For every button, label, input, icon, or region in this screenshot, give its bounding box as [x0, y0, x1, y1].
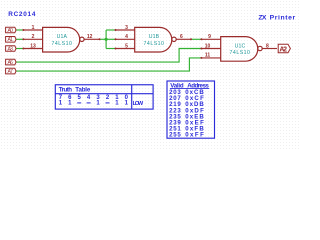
svg-text:U1C: U1C [235, 44, 246, 50]
svg-text:12: 12 [87, 34, 93, 40]
svg-text:RC2014: RC2014 [8, 11, 36, 18]
svg-text:A7: A7 [8, 69, 14, 75]
svg-text:10: 10 [205, 43, 211, 49]
svg-text:74LS10: 74LS10 [144, 41, 165, 47]
svg-text:6: 6 [180, 34, 183, 40]
svg-text:A2: A2 [279, 46, 287, 53]
svg-text:0xFF: 0xFF [185, 132, 204, 139]
svg-text:74LS10: 74LS10 [51, 41, 72, 47]
svg-text:2: 2 [32, 34, 35, 40]
svg-text:255: 255 [169, 132, 181, 139]
svg-text:LOW: LOW [133, 101, 144, 107]
svg-text:1: 1 [32, 25, 35, 31]
svg-text:A0: A0 [8, 28, 14, 34]
svg-text:U1B: U1B [149, 34, 160, 40]
svg-text:3: 3 [125, 25, 128, 31]
svg-text:A1: A1 [8, 37, 14, 43]
svg-text:9: 9 [208, 34, 211, 40]
svg-text:74LS10: 74LS10 [230, 50, 251, 56]
svg-text:A6: A6 [8, 60, 14, 66]
svg-text:Truth: Truth [59, 86, 73, 93]
svg-text:ZX: ZX [258, 14, 266, 21]
svg-text:5: 5 [125, 43, 128, 49]
svg-text:8: 8 [266, 43, 269, 49]
svg-text:11: 11 [205, 53, 211, 59]
svg-text:4: 4 [125, 34, 128, 40]
svg-text:13: 13 [30, 43, 36, 49]
svg-text:Printer: Printer [270, 14, 296, 21]
svg-text:Table: Table [75, 86, 91, 93]
svg-text:A3: A3 [8, 46, 14, 52]
svg-text:U1A: U1A [57, 34, 68, 40]
